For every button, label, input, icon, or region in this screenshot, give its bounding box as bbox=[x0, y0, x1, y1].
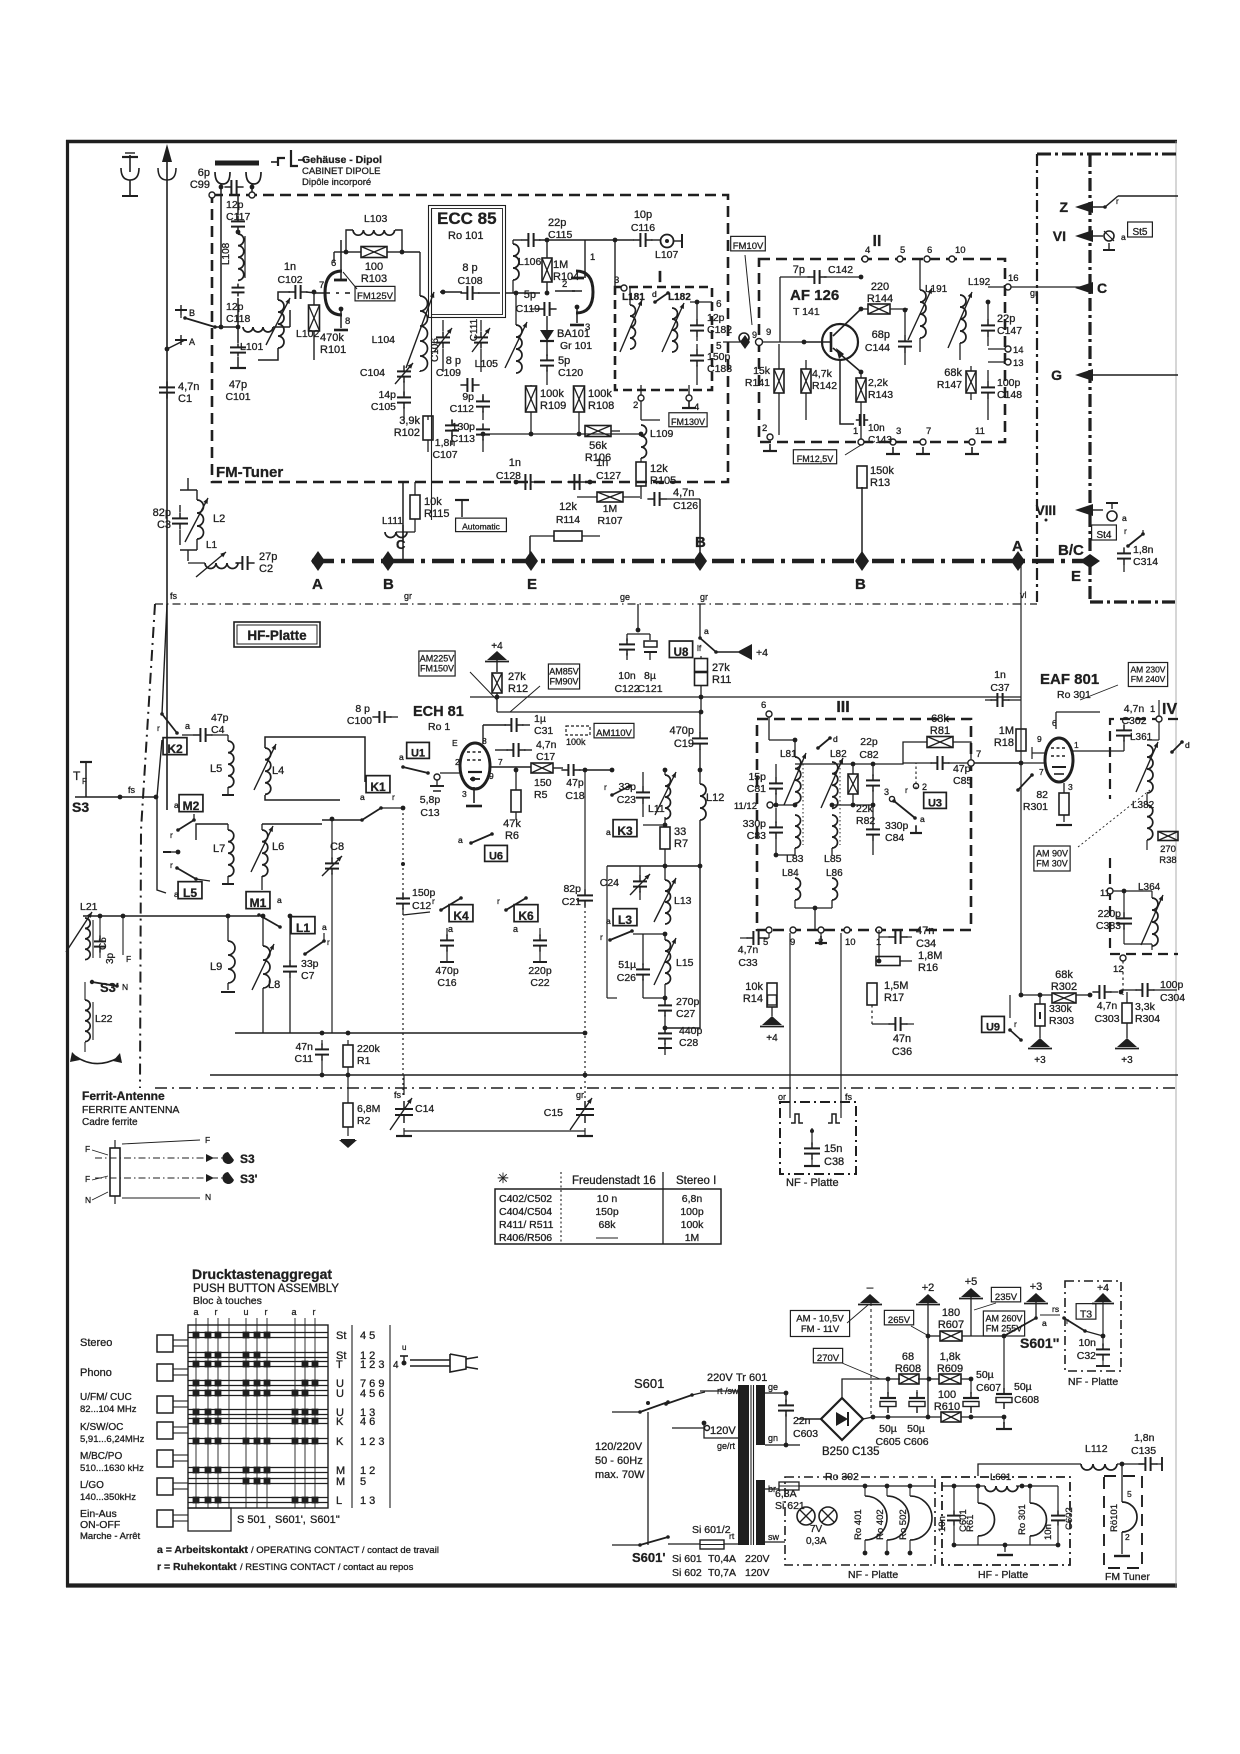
svg-text:C314: C314 bbox=[1133, 556, 1158, 568]
wire y697 bbox=[470, 696, 1021, 698]
svg-text:C14: C14 bbox=[415, 1103, 434, 1115]
resistor R14 10k bbox=[767, 983, 777, 1007]
coil L109 bbox=[641, 425, 647, 458]
capacitor C109 8p bbox=[466, 378, 468, 392]
vbox FM125V bbox=[355, 286, 395, 301]
svg-text:/ RESTING CONTACT / contact: / RESTING CONTACT / contact au repos bbox=[240, 1562, 414, 1573]
resistor R17 1.5M bbox=[867, 983, 877, 1005]
coil L1 variable bbox=[205, 563, 238, 569]
svg-text:S601',: S601', bbox=[275, 1514, 306, 1526]
svg-text:L13: L13 bbox=[674, 895, 692, 907]
svg-text:10p: 10p bbox=[634, 209, 652, 221]
coil L181 variable bbox=[630, 305, 636, 349]
svg-text:Ro 301: Ro 301 bbox=[1057, 689, 1091, 701]
capacitor C7 33p bbox=[283, 965, 297, 967]
capacitor C102 bbox=[294, 285, 296, 299]
transistor AF126 T141 bbox=[822, 324, 858, 360]
II bottom pins bbox=[767, 434, 773, 440]
supply gnd bbox=[1003, 1417, 1005, 1424]
capacitor C34 47n bbox=[894, 930, 896, 944]
capacitor C33 4.7n bbox=[752, 931, 754, 945]
svg-text:C24: C24 bbox=[600, 877, 619, 889]
coil L108 bbox=[238, 234, 244, 280]
svg-text:68p: 68p bbox=[872, 329, 890, 341]
svg-text:T3: T3 bbox=[1080, 1308, 1092, 1320]
svg-text:1n: 1n bbox=[509, 457, 521, 469]
svg-text:Automatic: Automatic bbox=[462, 522, 501, 532]
capacitor C108 8p bbox=[466, 286, 468, 300]
svg-text:T: T bbox=[73, 769, 81, 783]
svg-text:C602: C602 bbox=[1064, 1507, 1075, 1530]
svg-text:r: r bbox=[170, 860, 173, 870]
wire row y770 bbox=[585, 769, 612, 771]
svg-text:22n: 22n bbox=[793, 1415, 811, 1427]
wire M2-L area bbox=[177, 868, 196, 879]
lamp1 bbox=[797, 1507, 815, 1525]
svg-text:9p: 9p bbox=[462, 391, 474, 403]
svg-text:22p: 22p bbox=[860, 736, 878, 748]
svg-text:ECH 81: ECH 81 bbox=[413, 704, 464, 720]
capacitor C314 1.8n bbox=[1117, 552, 1131, 554]
svg-text:5: 5 bbox=[1127, 1489, 1132, 1499]
coil L104 variable bbox=[420, 296, 428, 371]
NF-Platte box bottom bbox=[785, 1477, 935, 1565]
ecap C606 50u bbox=[916, 1390, 918, 1394]
capacitor C117 bbox=[231, 220, 245, 222]
svg-text:L4: L4 bbox=[272, 765, 284, 777]
wire K1 row bbox=[339, 800, 341, 814]
arrow +5 bbox=[961, 1288, 981, 1297]
svg-text:4 6: 4 6 bbox=[360, 1416, 375, 1428]
svg-text:8: 8 bbox=[345, 316, 350, 327]
svg-text:r: r bbox=[327, 938, 330, 947]
svg-text:R17: R17 bbox=[884, 992, 904, 1004]
wire III pin1 down bbox=[878, 930, 880, 933]
svg-text:7: 7 bbox=[498, 757, 503, 767]
wire x221 down bbox=[220, 195, 222, 327]
svg-text:L: L bbox=[336, 1495, 342, 1507]
FM Tuner box bottom bbox=[1104, 1476, 1142, 1568]
resistor R2 6.8M bbox=[343, 1103, 353, 1127]
svg-text:C2: C2 bbox=[259, 563, 273, 575]
svg-text:R608: R608 bbox=[895, 1363, 921, 1375]
resistor R5 150 bbox=[490, 766, 531, 768]
gnd under R2 bbox=[339, 1140, 357, 1148]
svg-text:12k: 12k bbox=[650, 463, 668, 475]
vbox AM90V FM30V bbox=[1034, 846, 1070, 871]
svg-text:9: 9 bbox=[752, 330, 757, 340]
svg-text:U3: U3 bbox=[928, 798, 942, 810]
resistor R101 470k bbox=[309, 305, 320, 331]
svg-text:6: 6 bbox=[927, 245, 932, 256]
svg-text:G: G bbox=[1051, 367, 1062, 383]
svg-text:C81: C81 bbox=[747, 783, 766, 795]
svg-text:4: 4 bbox=[393, 1360, 399, 1371]
trimmer C13 5.8p bbox=[434, 774, 440, 780]
svg-text:150: 150 bbox=[534, 777, 552, 789]
wire y1078 bbox=[210, 1074, 1178, 1076]
svg-text:d: d bbox=[833, 734, 838, 744]
svg-text:R2: R2 bbox=[357, 1115, 371, 1127]
NF bottom rail bbox=[799, 1485, 935, 1487]
svg-text:fs: fs bbox=[394, 1090, 402, 1100]
svg-text:C113: C113 bbox=[451, 433, 475, 445]
resistor R107 1M bbox=[597, 492, 623, 502]
svg-text:u: u bbox=[402, 1343, 406, 1352]
svg-text:a: a bbox=[193, 1307, 198, 1317]
II pins 14 13 bbox=[1005, 346, 1011, 352]
svg-text:R114: R114 bbox=[556, 514, 580, 526]
svg-text:max. 70W: max. 70W bbox=[595, 1469, 645, 1481]
trimmer C106 bbox=[436, 336, 450, 338]
svg-text:1 3: 1 3 bbox=[360, 1495, 375, 1507]
svg-text:150p: 150p bbox=[595, 1206, 619, 1218]
svg-text:220V: 220V bbox=[745, 1553, 770, 1565]
svg-text:B: B bbox=[855, 576, 866, 593]
svg-text:ECC 85: ECC 85 bbox=[437, 209, 497, 228]
svg-text:1 2 3: 1 2 3 bbox=[360, 1436, 384, 1448]
resistor R16 1.8M bbox=[876, 957, 900, 966]
svg-text:10: 10 bbox=[955, 245, 966, 256]
svg-text:R304: R304 bbox=[1135, 1013, 1160, 1025]
svg-text:C603: C603 bbox=[793, 1428, 818, 1440]
capacitor C22 220p bbox=[539, 928, 541, 936]
svg-text:10n: 10n bbox=[868, 423, 885, 434]
capacitor C113 130p bbox=[476, 428, 490, 430]
svg-text:3: 3 bbox=[585, 322, 590, 333]
svg-text:C37: C37 bbox=[990, 682, 1009, 694]
vbox 270V bbox=[813, 1348, 842, 1363]
svg-text:L8: L8 bbox=[268, 979, 280, 991]
M2 blade bbox=[178, 820, 194, 830]
coil L6 variable bbox=[262, 830, 268, 876]
svg-text:50µ: 50µ bbox=[907, 1423, 925, 1435]
coil L82 variable bbox=[832, 762, 838, 808]
S601 wire down bbox=[647, 1412, 649, 1545]
row y1417 bbox=[873, 1416, 941, 1418]
svg-text:L191: L191 bbox=[925, 284, 948, 295]
svg-text:L112: L112 bbox=[1085, 1443, 1108, 1455]
svg-text:8 p: 8 p bbox=[355, 703, 370, 715]
vbox T3 bbox=[1076, 1304, 1096, 1320]
svg-text:C32: C32 bbox=[1077, 1350, 1096, 1362]
svg-text:C148: C148 bbox=[997, 389, 1022, 401]
svg-text:L86: L86 bbox=[826, 868, 843, 879]
EAF801 tube bbox=[1045, 738, 1073, 782]
wire L11 bottom bbox=[664, 817, 666, 825]
svg-text:47k: 47k bbox=[503, 818, 521, 830]
svg-text:FERRITE ANTENNA: FERRITE ANTENNA bbox=[82, 1104, 179, 1116]
svg-text:C26: C26 bbox=[617, 972, 636, 984]
svg-text:+4: +4 bbox=[491, 641, 503, 652]
svg-text:R142: R142 bbox=[812, 380, 837, 392]
svg-text:R607: R607 bbox=[938, 1319, 964, 1331]
svg-text:10n: 10n bbox=[937, 1516, 948, 1532]
svg-text:r: r bbox=[600, 932, 603, 942]
svg-text:L12: L12 bbox=[706, 792, 724, 804]
svg-text:a: a bbox=[277, 895, 282, 905]
svg-text:L2: L2 bbox=[213, 513, 225, 525]
svg-text:Rö101: Rö101 bbox=[1109, 1504, 1120, 1532]
coil L8 variable bbox=[263, 946, 270, 988]
svg-text:120/220V: 120/220V bbox=[595, 1441, 643, 1453]
svg-text:3: 3 bbox=[884, 787, 889, 797]
bus junction B/C lens bbox=[1080, 554, 1100, 568]
svg-text:1 2 3: 1 2 3 bbox=[360, 1359, 384, 1371]
svg-text:F: F bbox=[126, 954, 131, 964]
svg-text:VIII: VIII bbox=[1036, 503, 1056, 518]
svg-text:R108: R108 bbox=[588, 400, 614, 412]
svg-text:120V: 120V bbox=[745, 1567, 770, 1579]
resistor IV 270 bbox=[1158, 832, 1178, 841]
svg-text:1,5M: 1,5M bbox=[884, 980, 908, 992]
T automatic antenna bbox=[455, 499, 469, 501]
svg-text:F: F bbox=[85, 1144, 90, 1154]
svg-text:M2: M2 bbox=[183, 799, 200, 813]
svg-text:AM 260V: AM 260V bbox=[985, 1314, 1022, 1324]
svg-text:R101: R101 bbox=[320, 344, 346, 356]
FM130V box bbox=[669, 413, 707, 427]
svg-text:1M: 1M bbox=[553, 259, 568, 271]
svg-text:R115: R115 bbox=[424, 508, 449, 520]
svg-text:Z: Z bbox=[1059, 199, 1068, 215]
capacitor C85 47p bbox=[936, 756, 938, 770]
svg-text:470p: 470p bbox=[670, 725, 694, 737]
svg-text:N: N bbox=[85, 1195, 91, 1205]
coil L106 bbox=[513, 244, 519, 280]
svg-text:K: K bbox=[336, 1436, 344, 1448]
svg-text:St: St bbox=[336, 1330, 346, 1342]
svg-text:1: 1 bbox=[590, 252, 595, 263]
svg-text:440p: 440p bbox=[679, 1025, 703, 1037]
trimmer C104 bbox=[397, 370, 411, 372]
loop L15 frame bbox=[607, 997, 617, 999]
svg-text:a: a bbox=[458, 835, 463, 845]
svg-text:C116: C116 bbox=[631, 222, 655, 234]
svg-text:8 p: 8 p bbox=[446, 355, 461, 367]
svg-text:C17: C17 bbox=[536, 751, 555, 763]
svg-text:C4: C4 bbox=[211, 724, 225, 736]
svg-text:S3: S3 bbox=[72, 799, 89, 815]
svg-text:10k: 10k bbox=[745, 981, 763, 993]
svg-text:gn: gn bbox=[768, 1433, 778, 1443]
coil L111 + C node bbox=[385, 532, 407, 538]
svg-text:+3: +3 bbox=[1034, 1055, 1046, 1066]
svg-text:L84: L84 bbox=[782, 868, 799, 879]
right rail box left edge bbox=[1036, 154, 1038, 602]
cathode R ECC85a gnd bbox=[340, 239, 342, 241]
svg-text:330k: 330k bbox=[1049, 1003, 1073, 1015]
svg-text:Stereo: Stereo bbox=[80, 1337, 112, 1349]
switch in III top bbox=[818, 738, 830, 748]
svg-text:C147: C147 bbox=[997, 325, 1022, 337]
svg-text:gr: gr bbox=[700, 592, 708, 602]
svg-text:27p: 27p bbox=[259, 551, 277, 563]
svg-text:180: 180 bbox=[942, 1307, 960, 1319]
svg-text:5p: 5p bbox=[524, 289, 536, 301]
Ro401 Ro402 Ro502 bbox=[865, 1496, 887, 1540]
svg-text:C107: C107 bbox=[432, 449, 457, 461]
capacitor C112 9p bbox=[476, 400, 490, 402]
svg-text:1,8n: 1,8n bbox=[1133, 544, 1154, 556]
switch K4 bbox=[449, 905, 473, 922]
svg-text:gr: gr bbox=[404, 591, 412, 601]
svg-text:T0,4A: T0,4A bbox=[708, 1553, 736, 1565]
resistor R7 33 bbox=[660, 827, 670, 849]
ecap C607 50u bbox=[963, 1397, 979, 1399]
FM tuner Rö101 bbox=[1121, 1464, 1123, 1502]
svg-text:7: 7 bbox=[1039, 767, 1044, 777]
svg-text:AM - 10,5V: AM - 10,5V bbox=[796, 1314, 844, 1325]
resistor R12 27k bbox=[492, 673, 502, 693]
svg-text:FM-Tuner: FM-Tuner bbox=[216, 464, 283, 481]
coil L382 bbox=[1147, 805, 1153, 840]
wire dipole to C99 bbox=[220, 184, 222, 195]
gnd +3 under R303 bbox=[1030, 1038, 1050, 1047]
svg-text:15p: 15p bbox=[748, 771, 766, 783]
svg-text:R147: R147 bbox=[937, 379, 962, 391]
svg-text:U6: U6 bbox=[489, 851, 503, 863]
svg-text:120V: 120V bbox=[710, 1425, 736, 1437]
svg-text:330p: 330p bbox=[743, 818, 767, 830]
node C bbox=[1075, 282, 1093, 294]
arrow +3 supply bbox=[1026, 1293, 1046, 1302]
svg-text:K6: K6 bbox=[518, 909, 534, 923]
capacitor C105 14p bbox=[397, 396, 411, 398]
node Z bbox=[1075, 201, 1093, 213]
capacitor C303 4.7n bbox=[1098, 985, 1100, 999]
svg-text:L382: L382 bbox=[1132, 800, 1155, 811]
capacitor C183 150p bbox=[690, 354, 704, 356]
gnd +3 under R304 bbox=[1117, 1038, 1137, 1047]
row y1379 bbox=[887, 1378, 900, 1380]
svg-text:IV: IV bbox=[1162, 701, 1177, 718]
svg-text:C402/C502: C402/C502 bbox=[499, 1193, 552, 1205]
II pins top bbox=[862, 256, 868, 262]
svg-text:82p: 82p bbox=[153, 507, 171, 519]
svg-text:3: 3 bbox=[462, 789, 467, 799]
svg-text:Ro 101: Ro 101 bbox=[448, 230, 483, 242]
resistor R105 12k bbox=[636, 462, 646, 486]
coil L192 variable bbox=[960, 295, 966, 343]
antenna symbol left bbox=[129, 155, 131, 172]
svg-text:82...104 MHz: 82...104 MHz bbox=[80, 1404, 137, 1415]
svg-text:R406/R506: R406/R506 bbox=[499, 1232, 552, 1244]
main bus dash-dot bbox=[312, 559, 1092, 564]
svg-text:L5: L5 bbox=[183, 886, 197, 900]
svg-text:R302: R302 bbox=[1051, 981, 1077, 993]
cabinet dipole bars bbox=[215, 161, 259, 166]
pb grid columns bbox=[195, 1318, 197, 1508]
svg-text:St4: St4 bbox=[1096, 530, 1111, 541]
svg-text:✳: ✳ bbox=[497, 1170, 509, 1186]
svg-text:NF - Platte: NF - Platte bbox=[1068, 1376, 1118, 1388]
capacitor C2 27p bbox=[241, 556, 243, 570]
wire x1021 down to U9 row bbox=[1020, 763, 1022, 995]
svg-text:NF - Platte: NF - Platte bbox=[786, 1177, 839, 1189]
svg-text:F: F bbox=[205, 1135, 210, 1145]
svg-text:L182: L182 bbox=[668, 292, 691, 303]
svg-text:K/SW/OC: K/SW/OC bbox=[80, 1422, 123, 1433]
svg-text:+4: +4 bbox=[766, 1033, 778, 1044]
svg-text:r: r bbox=[1014, 1019, 1017, 1029]
svg-text:K1: K1 bbox=[370, 780, 386, 794]
svg-text:4 5 6: 4 5 6 bbox=[360, 1388, 384, 1400]
svg-text:C99: C99 bbox=[190, 179, 210, 191]
svg-text:4,7n: 4,7n bbox=[1124, 703, 1145, 715]
wire grid2 bbox=[555, 290, 568, 292]
svg-text:Phono: Phono bbox=[80, 1367, 112, 1379]
svg-text:1,8n: 1,8n bbox=[1134, 1432, 1155, 1444]
coil L112 bbox=[1081, 1464, 1117, 1470]
wire y327 bbox=[215, 326, 237, 328]
HF L601 bbox=[985, 1486, 1018, 1492]
switch L1 bbox=[291, 917, 315, 934]
antenna TF input bbox=[80, 761, 92, 763]
svg-text:C18: C18 bbox=[565, 790, 584, 802]
svg-text:4,7n: 4,7n bbox=[673, 487, 694, 499]
svg-text:C121: C121 bbox=[637, 683, 662, 695]
svg-text:1n: 1n bbox=[596, 457, 608, 469]
coil L11 variable bbox=[665, 775, 671, 819]
svg-text:1M: 1M bbox=[603, 503, 618, 515]
svg-text:0,3A: 0,3A bbox=[806, 1536, 827, 1547]
wire L103 to anode bbox=[333, 252, 335, 262]
svg-text:E: E bbox=[452, 738, 458, 748]
svg-text:–: – bbox=[867, 1280, 874, 1294]
svg-text:47n: 47n bbox=[893, 1033, 911, 1045]
svg-text:C1: C1 bbox=[178, 393, 192, 405]
III bottom pins bbox=[766, 927, 772, 933]
svg-text:B: B bbox=[383, 576, 394, 593]
capacitor C120 5p bbox=[540, 359, 554, 361]
pulse or bbox=[789, 1102, 791, 1118]
gang link line bbox=[404, 1130, 585, 1132]
capacitor C126 4.7n bbox=[653, 492, 655, 506]
svg-text:U9: U9 bbox=[986, 1022, 1000, 1034]
capacitor C121 8u bbox=[649, 634, 651, 640]
dipole icon small bbox=[278, 158, 285, 166]
svg-text:10n: 10n bbox=[1078, 1337, 1096, 1349]
wire y434 fm bbox=[483, 433, 641, 435]
svg-text:NF - Platte: NF - Platte bbox=[848, 1569, 898, 1581]
svg-text:S601: S601 bbox=[634, 1376, 664, 1391]
svg-text:r: r bbox=[905, 785, 908, 795]
resistor 100k dashed bbox=[566, 726, 590, 735]
svg-text:47p: 47p bbox=[566, 777, 584, 789]
svg-text:ON-OFF: ON-OFF bbox=[80, 1519, 120, 1531]
svg-text:L109: L109 bbox=[650, 428, 674, 440]
switch U3 bbox=[913, 783, 918, 788]
svg-text:50µ: 50µ bbox=[879, 1423, 897, 1435]
svg-text:5,8p: 5,8p bbox=[420, 794, 441, 806]
capacitor C111 bbox=[474, 336, 488, 338]
svg-text:C19: C19 bbox=[674, 738, 694, 750]
coil L83 bbox=[795, 815, 801, 848]
box III dashed bbox=[757, 719, 971, 930]
HF Ro301 bbox=[1030, 1503, 1047, 1536]
svg-text:r: r bbox=[1124, 526, 1127, 536]
svg-text:+2: +2 bbox=[922, 1282, 935, 1294]
wire k1 dotted down bbox=[402, 808, 404, 1098]
svg-text:5: 5 bbox=[900, 245, 905, 256]
svg-text:FM90V: FM90V bbox=[549, 677, 578, 687]
capacitor C4 47p bbox=[199, 728, 201, 742]
svg-text:L1: L1 bbox=[296, 921, 310, 935]
svg-text:C85: C85 bbox=[953, 775, 972, 787]
svg-text:C34: C34 bbox=[916, 938, 936, 950]
svg-text:C15: C15 bbox=[544, 1107, 563, 1119]
